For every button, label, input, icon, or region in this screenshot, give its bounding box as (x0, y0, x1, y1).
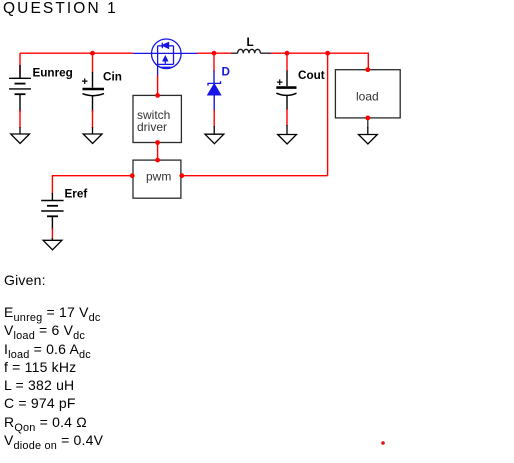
svg-text:load: load (356, 90, 379, 104)
svg-text:Eunreg: Eunreg (33, 67, 73, 80)
node feedback top junction (325, 51, 330, 56)
battery Eunreg (9, 53, 31, 128)
node pwm top pin (155, 158, 160, 163)
svg-text:L: L (247, 36, 254, 49)
inductor L (231, 49, 271, 53)
capacitor Cout (276, 53, 296, 126)
given values text (4, 271, 103, 449)
node diode top junction (212, 51, 217, 56)
stray red dot marker (378, 438, 388, 448)
svg-text:D: D (222, 66, 230, 79)
svg-text:pwm: pwm (146, 170, 171, 184)
node pwm right pin (179, 173, 184, 178)
box switch driver (133, 95, 181, 142)
wire MOSFET drain to diode node (197, 52, 214, 54)
box pwm (133, 160, 181, 198)
wire diode node to inductor (214, 52, 231, 54)
svg-text:Cin: Cin (103, 71, 122, 84)
svg-text:Cout: Cout (298, 69, 325, 82)
wire switch driver to pwm (157, 143, 159, 161)
ground (Cout) (278, 125, 297, 144)
circuit schematic (0, 0, 514, 260)
svg-text:driver: driver (137, 120, 167, 134)
svg-text:Eref: Eref (65, 188, 88, 201)
node switch driver bottom pin (155, 140, 160, 145)
capacitor Cin (83, 53, 105, 128)
wire load bottom (367, 118, 369, 128)
wire top rail: Eunreg to MOSFET source (20, 52, 133, 54)
ground (Cin) (83, 127, 102, 144)
node switch driver top pin (155, 93, 160, 98)
transistor Q1 PMOS switch (133, 39, 197, 76)
node pwm left pin (130, 173, 135, 178)
node load bottom pin (365, 116, 370, 121)
node Cout top junction (285, 51, 290, 56)
load box (335, 70, 400, 118)
svg-text:+: + (82, 76, 88, 88)
diode D (208, 53, 221, 127)
svg-text:+: + (277, 77, 283, 89)
ground (Eref) (43, 238, 62, 250)
wire gate to switch driver (157, 75, 159, 95)
ground (load) (359, 127, 378, 144)
wire pwm to feedback line (181, 175, 328, 177)
node Cin top junction (90, 51, 95, 56)
battery Eref (41, 193, 63, 240)
title QUESTION 1 (3, 0, 118, 18)
wire inductor to Cout node and load (271, 53, 368, 69)
node load top pin (365, 67, 370, 72)
ground (Eunreg) (11, 127, 30, 144)
ground (D) (205, 126, 224, 144)
wire pwm to Eref (52, 176, 132, 195)
wire feedback output node down (327, 53, 329, 176)
